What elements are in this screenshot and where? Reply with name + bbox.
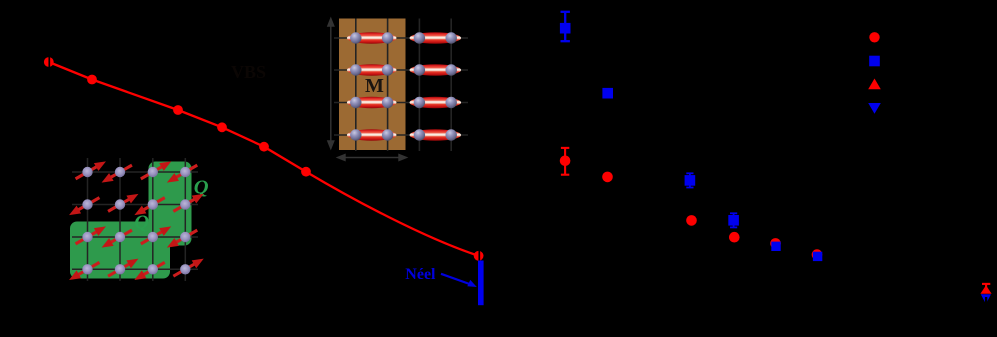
svg-text:Q: Q (134, 212, 149, 234)
svg-text:M: M (365, 75, 384, 97)
svg-text:VBS: VBS (231, 62, 266, 82)
svg-text:Néel: Néel (405, 266, 436, 283)
